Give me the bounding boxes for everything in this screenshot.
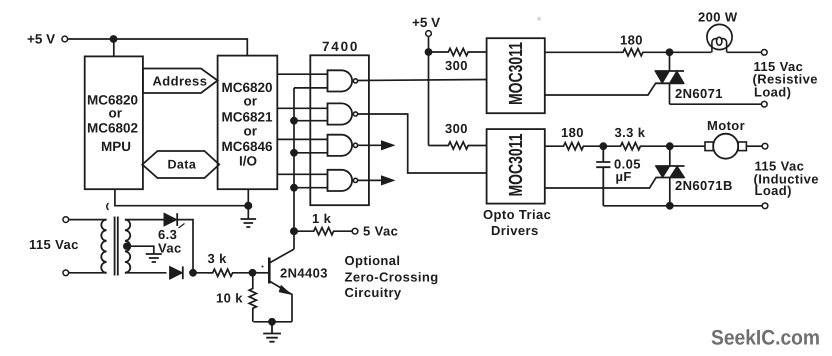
resistor 300 (bottom): [429, 142, 487, 149]
svg-text:180: 180: [620, 33, 643, 48]
label 0.05 uF: [614, 157, 641, 185]
Address label: [153, 74, 208, 89]
wire motor to terminal: [746, 145, 762, 147]
wire center tap: [127, 246, 154, 254]
svg-text:Load): Load): [755, 183, 792, 198]
svg-text:MOC3011: MOC3011: [506, 42, 527, 105]
svg-text:MC6846: MC6846: [222, 139, 274, 154]
wire diode D1 to join: [177, 220, 193, 273]
I/O U2 text: [222, 80, 274, 169]
label 115 Vac left: [29, 237, 79, 252]
label 115 Vac (Inductive Load): [754, 159, 819, 199]
resistor 1k: [294, 228, 352, 235]
wire gate3 output stub: [358, 144, 382, 146]
U4 MOC3011 text: [506, 42, 527, 105]
junction triac2 top: [666, 142, 674, 150]
terminal 115Vac resistive top: [761, 49, 767, 55]
svg-text:3.3 k: 3.3 k: [615, 125, 646, 140]
label 180 bottom: [561, 125, 584, 140]
transformer T1 core: [115, 217, 118, 276]
junction +5V to MPU: [110, 35, 118, 43]
MPU U1 text: [87, 93, 138, 155]
junction gate4 input B: [290, 184, 298, 192]
label 1 k: [312, 211, 332, 226]
wire +5V to MPU top: [113, 39, 115, 56]
junction emitter ground: [268, 318, 276, 326]
wire gate1 output to MOC3011 U4: [358, 80, 487, 81]
label 2N6071: [675, 86, 723, 101]
junction triac1 top: [666, 48, 674, 56]
wire to lamp: [670, 51, 712, 53]
label 115 Vac (Resistive Load): [753, 59, 818, 100]
label Optional Zero-Crossing Circuitry: [345, 253, 439, 300]
label 300 top: [445, 58, 468, 73]
svg-text:Circuitry: Circuitry: [345, 285, 402, 300]
ground center tap: [146, 254, 162, 262]
svg-text:or: or: [109, 106, 123, 121]
resistor 180 (top): [620, 49, 670, 56]
junction gate3 input B: [290, 149, 298, 157]
wire secondary bottom: [125, 272, 167, 274]
label 10 k: [216, 291, 243, 306]
wire base: [253, 272, 269, 274]
wire gate1 input B: [294, 87, 328, 89]
+5V label middle: [412, 15, 440, 30]
label Motor: [707, 118, 745, 133]
svg-text:Motor: Motor: [707, 118, 745, 133]
terminal 5 Vac: [352, 228, 358, 234]
transformer T1 primary winding: [101, 220, 106, 273]
MPU U1 box MC6820/MC6802: [85, 56, 143, 189]
watermark SeekIC.com: [711, 327, 820, 350]
svg-text:+5 V: +5 V: [27, 32, 55, 47]
wire MPU ground rail: [115, 189, 248, 206]
svg-text:200 W: 200 W: [698, 10, 738, 25]
junction base node: [249, 269, 257, 277]
svg-text:Data: Data: [168, 158, 197, 172]
+5V terminal (left): [62, 36, 68, 42]
NAND gate G1: [328, 70, 358, 91]
svg-text:MC6802: MC6802: [87, 121, 138, 136]
wire U4 pin to triac1 gate: [545, 83, 656, 95]
Address bus arrow: [143, 69, 218, 94]
wire +5V middle vertical: [428, 37, 430, 146]
svg-text:10 k: 10 k: [216, 291, 243, 306]
lamp 200W: [707, 24, 732, 52]
diode D2: [170, 266, 183, 279]
wire emitter rail: [254, 321, 292, 323]
7400 U3 box: [310, 55, 369, 205]
wire I/O to gate3 input A: [277, 138, 327, 140]
wire zero-crossing vertical bus: [293, 88, 295, 249]
transformer T1 primary terminal top: [63, 217, 69, 223]
junction ground rail: [244, 202, 252, 210]
svg-text:2N6071: 2N6071: [675, 86, 723, 101]
7400 label: [322, 39, 359, 54]
wire primary bottom: [69, 272, 107, 274]
svg-text:180: 180: [561, 125, 584, 140]
arrowhead gate3 output: [381, 140, 396, 150]
label 5 Vac: [363, 224, 398, 239]
svg-text:2N4403: 2N4403: [280, 266, 328, 281]
wire gate2 input B: [294, 120, 328, 122]
label 3.3 k: [615, 125, 646, 140]
transformer T1 primary terminal bottom: [63, 270, 69, 276]
svg-text:Load): Load): [754, 85, 791, 100]
Opto Triac Drivers label: [483, 207, 551, 238]
resistor 3.3k: [603, 143, 670, 150]
svg-text:SeekIC.com: SeekIC.com: [711, 327, 820, 350]
svg-text:I/O: I/O: [239, 154, 257, 169]
opto coupler U4 MOC3011 box: [487, 38, 545, 113]
wire I/O to gate4 input A: [277, 173, 327, 175]
label 2N6071B: [675, 178, 733, 193]
U5 MOC3011 text: [506, 133, 527, 196]
junction diodes: [189, 269, 197, 277]
wire to motor: [670, 145, 705, 147]
opto coupler U5 MOC3011 box: [487, 129, 545, 204]
svg-text:µF: µF: [616, 169, 632, 184]
wire gate2 output to MOC3011 U5: [358, 114, 487, 173]
svg-text:MC6821: MC6821: [222, 110, 274, 125]
svg-text:Vac: Vac: [158, 241, 182, 256]
wire gate4 output stub: [358, 179, 382, 181]
label 200 W: [698, 10, 738, 25]
triac Q3 2N6071B: [656, 146, 685, 206]
wire +5V rail top: [68, 39, 248, 56]
wire U5 pin to 180 bottom: [545, 145, 563, 147]
wire primary top: [69, 219, 107, 221]
ground emitter: [263, 322, 281, 342]
svg-text:Optional: Optional: [345, 253, 401, 268]
wire U5 pin to triac2 gate: [545, 178, 656, 188]
stray scan squiggle: [107, 203, 109, 210]
svg-text:Zero-Crossing: Zero-Crossing: [345, 270, 439, 285]
svg-text:115 Vac: 115 Vac: [29, 237, 79, 252]
svg-text:3 k: 3 k: [208, 251, 228, 266]
wire triac1 to terminal: [670, 103, 762, 105]
svg-text:+5 V: +5 V: [412, 15, 440, 30]
resistor 10k: [249, 273, 256, 322]
svg-text:or: or: [244, 124, 258, 139]
wire U4 pin to 180: [545, 51, 620, 53]
wire gate4 input B: [294, 187, 328, 189]
junction cap node: [599, 142, 607, 150]
wire I/O to ground: [247, 189, 249, 219]
terminal 115Vac resistive bottom: [761, 101, 767, 107]
svg-text:300: 300: [445, 58, 468, 73]
motor M1: [705, 134, 746, 159]
svg-text:Drivers: Drivers: [491, 223, 539, 238]
NAND gate G3: [328, 135, 358, 156]
junction gate2 input B: [290, 117, 298, 125]
junction center tap: [123, 243, 130, 250]
triac Q2 2N6071: [655, 52, 684, 104]
Data bus arrow: [142, 151, 219, 178]
svg-text:MOC3011: MOC3011: [506, 133, 527, 196]
diode D1: [164, 213, 177, 226]
ground I/O: [241, 219, 257, 227]
junction triac2 bottom: [666, 202, 674, 210]
arrowhead gate4 output: [381, 175, 396, 185]
terminal 115Vac inductive top: [762, 143, 768, 149]
NAND gate G4: [328, 170, 358, 191]
svg-text:Address: Address: [153, 74, 208, 89]
svg-text:7400: 7400: [322, 39, 359, 54]
svg-text:MPU: MPU: [101, 139, 131, 154]
label 180 top: [620, 33, 643, 48]
resistor 180 (bottom): [563, 143, 604, 150]
wire secondary top: [125, 219, 164, 221]
capacitor C1 0.05uF: [596, 146, 610, 206]
transistor Q1 emitter arrow: [279, 285, 293, 295]
transformer T1 secondary winding: [125, 220, 130, 273]
transistor Q1 2N4403: [269, 249, 294, 322]
svg-text:300: 300: [445, 121, 468, 136]
noise speck: [262, 266, 264, 268]
I/O U2 box MC6820/MC6821/MC6846: [218, 56, 278, 190]
Data label: [168, 158, 197, 172]
wire to 3k: [193, 272, 213, 274]
wire bottom rail to terminal: [603, 205, 762, 207]
label 2N4403: [280, 266, 328, 281]
wire I/O to gate2 input A: [277, 107, 327, 109]
wire gate3 input B: [294, 152, 328, 154]
wire lamp to terminal: [727, 51, 762, 53]
+5V label left: [27, 32, 55, 47]
noise speck top: [537, 17, 541, 21]
stray mark: [179, 224, 185, 229]
+5V terminal (middle): [426, 31, 432, 37]
junction 1k node: [290, 227, 298, 235]
svg-text:5 Vac: 5 Vac: [363, 224, 398, 239]
junction +5V 300 top: [425, 48, 433, 56]
label 6.3 Vac: [158, 227, 182, 256]
label 3 k: [208, 251, 228, 266]
wire I/O to gate1 input A: [277, 73, 327, 75]
NAND gate G2: [328, 103, 358, 124]
svg-text:1 k: 1 k: [312, 211, 332, 226]
svg-text:Opto Triac: Opto Triac: [483, 207, 551, 222]
svg-text:2N6071B: 2N6071B: [675, 178, 733, 193]
svg-text:or: or: [244, 94, 258, 109]
resistor 3k: [208, 269, 253, 276]
label 300 bottom: [445, 121, 468, 136]
resistor 300 (top): [429, 48, 487, 55]
terminal 115Vac inductive bottom: [762, 203, 768, 209]
